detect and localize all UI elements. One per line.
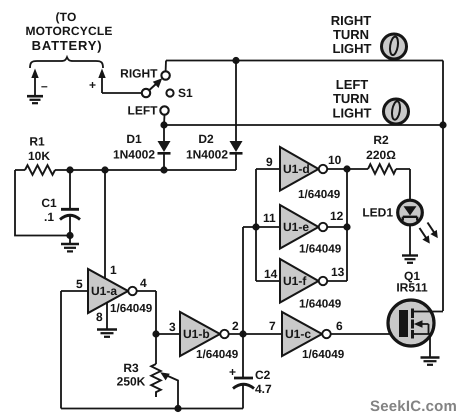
ground (U1-a pin 8) [97,330,117,337]
svg-text:13: 13 [331,265,345,279]
op-amp U1-b inverter [180,312,229,356]
battery brace [30,57,103,68]
svg-text:4.7: 4.7 [255,382,272,396]
switch S1 RIGHT contact [161,71,169,79]
wire pin14 input [256,280,280,282]
svg-text:1: 1 [110,263,117,277]
capacitor C2 [233,378,254,409]
junction LEFT / D1 / left lamp wire [160,121,167,128]
svg-text:U1-d: U1-d [283,162,310,176]
svg-text:LEFT: LEFT [336,77,369,92]
wire U1-b output pin2 to U1-c pin7 [229,333,282,335]
ground (C1) [61,236,79,252]
junction R3 wiper / bottom rail [174,405,181,412]
svg-text:LIGHT: LIGHT [333,41,372,56]
wire pin12 output [327,226,347,228]
svg-text:TURN: TURN [333,27,369,42]
svg-text:1/64049: 1/64049 [110,302,153,315]
wire U1-a output pin4 [137,291,156,334]
svg-text:+: + [229,365,236,379]
wire feedback column to inverter inputs [242,227,244,334]
resistor R1 [25,165,55,175]
label LEFT TURN LIGHT [333,77,372,121]
svg-text:BATTERY): BATTERY) [32,38,103,53]
wire right vertical to Q1 drain [442,61,444,312]
junction right vertical / left lamp wire [439,121,446,128]
wire C1 top lead [69,170,71,208]
svg-text:U1-b: U1-b [183,327,210,341]
svg-text:220Ω: 220Ω [366,148,396,162]
junction pin12 / bus [343,223,350,230]
ground (battery minus) [27,96,43,103]
svg-text:9: 9 [266,155,273,169]
svg-text:12: 12 [330,209,344,223]
transistor Q1 MOSFET [388,300,443,346]
junction pin4 / pin3 / R3 [152,330,159,337]
wire U1-a pin5 input [61,290,88,292]
svg-text:TURN: TURN [333,91,369,106]
wire supply rail after diodes [15,169,236,171]
svg-text:LED1: LED1 [362,206,393,220]
resistor R2 [368,164,396,174]
junction rail / D1 cathode [160,166,167,173]
svg-text:8: 8 [96,310,103,324]
LED LED1 [398,200,423,225]
svg-text:R3: R3 [123,361,139,375]
svg-text:–: – [41,79,48,93]
ground (Q1 source) [421,358,440,365]
wire pin10 output [327,168,347,170]
capacitor C1 [60,209,80,235]
wire R3 top lead [155,334,157,364]
diode D2 [230,141,243,170]
svg-text:1/64049: 1/64049 [299,243,342,256]
svg-text:10K: 10K [28,149,50,163]
junction rail / C1 [66,166,73,173]
svg-text:MOTORCYCLE: MOTORCYCLE [25,24,112,38]
svg-text:U1-a: U1-a [91,284,117,298]
svg-text:(TO: (TO [55,10,76,24]
junction rail / U1-a input [101,166,108,173]
svg-text:C1: C1 [41,196,57,210]
svg-text:R1: R1 [29,135,45,149]
diode D1 [158,125,171,170]
wire R2 to LED1 [396,169,410,200]
svg-text:D1: D1 [126,132,142,146]
switch S1 arm [149,78,162,90]
junction pin11 / pins 9 14 column [252,223,259,230]
svg-text:D2: D2 [198,132,214,146]
switch S1 pole contact [142,89,150,97]
svg-text:11: 11 [263,211,276,225]
svg-text:U1-c: U1-c [285,327,311,341]
wire U1-a pin8 to ground [106,302,108,329]
op-amp U1-d inverter [280,147,327,191]
junction top rail / D2 [232,57,239,64]
op-amp U1-f inverter [280,259,327,303]
wire U1-b pin3 input [156,333,180,335]
wire output bus column [346,169,348,281]
svg-text:R2: R2 [373,133,389,147]
svg-text:IR511: IR511 [396,281,428,295]
junction pin10 / bus [343,165,350,172]
switch S1 LEFT contact [160,106,168,114]
LED light arrow 2 [428,223,438,239]
op-amp U1-a inverter [88,269,137,313]
svg-text:1/64049: 1/64049 [302,348,345,361]
wire bus to R2 [347,168,368,170]
wire U1-a pin1 input column [104,170,106,278]
svg-text:+: + [89,78,96,92]
wire RIGHT contact to top rail [165,61,167,72]
svg-text:LEFT: LEFT [128,103,159,117]
wire pin13 output [327,280,347,282]
wire LED1 cathode to ground [409,225,411,255]
svg-text:U1-e: U1-e [283,220,309,234]
potentiometer R3 [151,364,178,409]
svg-text:1N4002: 1N4002 [186,148,228,162]
ground (LED1) [402,256,418,263]
svg-text:1N4002: 1N4002 [113,148,155,162]
svg-text:1/64049: 1/64049 [299,298,342,311]
battery minus terminal arrow [31,69,48,96]
wire R1 left loop [15,170,70,236]
wire left column pin5 to bottom rail [60,291,62,409]
battery plus terminal arrow [89,69,106,94]
wire Q1 source to ground [429,334,431,357]
lamp left turn light [384,99,409,124]
wire left lamp line [164,124,443,126]
LED light arrow 1 [420,228,430,244]
svg-text:3: 3 [169,320,176,334]
svg-text:10: 10 [328,153,342,167]
wire bottom rail [61,408,243,410]
svg-text:14: 14 [264,267,278,281]
wire LEFT contact to junction [163,115,166,125]
wire C2 top lead [242,334,244,377]
wire top rail (right turn feed) [166,60,443,62]
wire pin11 input [243,226,280,228]
svg-text:1/64049: 1/64049 [196,348,239,361]
wire pin9 input [256,168,280,170]
svg-text:S1: S1 [178,86,193,100]
svg-text:RIGHT: RIGHT [331,13,372,28]
svg-text:RIGHT: RIGHT [120,67,158,81]
node battery label [25,10,112,53]
svg-text:5: 5 [76,277,83,291]
svg-text:1/64049: 1/64049 [298,188,341,201]
svg-text:4: 4 [140,276,147,290]
junction C1 bottom [66,232,73,239]
svg-text:6: 6 [336,319,343,333]
svg-text:C2: C2 [255,368,271,382]
label RIGHT TURN LIGHT [331,13,372,56]
op-amp U1-c inverter [282,312,331,356]
wire pins 9-14 column [255,169,257,281]
lamp right turn light [382,34,407,59]
junction U1-b out / C2 / feedback [239,330,246,337]
svg-text:LIGHT: LIGHT [333,106,372,121]
svg-text:.1: .1 [44,210,54,224]
svg-text:U1-f: U1-f [283,274,307,288]
svg-text:2: 2 [232,319,239,333]
op-amp U1-e inverter [280,205,327,249]
svg-text:SeekIC.com: SeekIC.com [370,398,457,415]
wire D2 anode column [235,61,237,142]
svg-text:250K: 250K [117,375,146,389]
wire plus to switch pole [102,92,142,94]
switch S1 center contact [166,89,173,96]
wire U1-c output pin6 to Q1 gate [331,333,399,335]
svg-text:7: 7 [269,319,276,333]
